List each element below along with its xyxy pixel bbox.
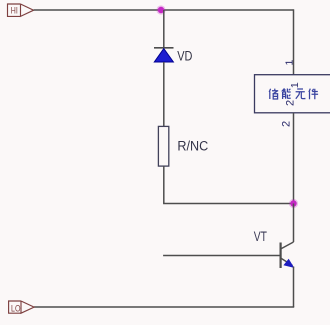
wire right vertical from top corner to box pin 1	[293, 9, 295, 74]
svg-text:VD: VD	[177, 49, 192, 64]
transistor VT	[281, 242, 294, 268]
char 元	[296, 89, 305, 99]
wire collector vertical	[293, 204, 295, 243]
label 储能元件 drawn as paths (chu neng yuan jian)	[269, 89, 318, 100]
svg-text:1: 1	[289, 82, 301, 88]
svg-text:LO: LO	[11, 304, 21, 315]
junction node top	[156, 5, 165, 14]
char 件	[309, 89, 318, 100]
wire emitter vertical	[293, 267, 295, 308]
svg-text:2: 2	[281, 121, 293, 127]
wire bottom horizontal	[34, 306, 294, 308]
resistor R/NC	[158, 126, 168, 166]
port LO	[9, 301, 34, 313]
svg-text:VT: VT	[254, 229, 267, 244]
svg-text:R/NC: R/NC	[177, 139, 208, 154]
char 储	[269, 89, 278, 99]
wire diode to resistor	[163, 62, 165, 126]
svg-text:1: 1	[283, 60, 295, 66]
wire base stub	[163, 255, 281, 257]
wire left vertical to diode	[163, 10, 165, 48]
svg-text:HI: HI	[11, 5, 18, 16]
wire box pin 2 down to junction	[293, 113, 295, 204]
port HI	[8, 4, 34, 16]
char 能	[282, 89, 290, 100]
junction node lower	[289, 199, 298, 208]
component 储能元件 (energy storage element) box	[255, 75, 330, 113]
svg-text:2: 2	[284, 100, 296, 106]
diode VD	[154, 48, 174, 62]
wire resistor down	[163, 166, 165, 203]
wire top horizontal	[34, 9, 294, 11]
wire lower horizontal	[163, 203, 293, 205]
